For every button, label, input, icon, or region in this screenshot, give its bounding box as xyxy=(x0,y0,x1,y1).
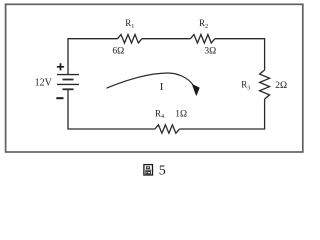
resistor R2 zigzag xyxy=(190,35,214,44)
battery - terminal mark xyxy=(56,97,63,99)
svg-text:I: I xyxy=(160,81,164,93)
svg-text:6Ω: 6Ω xyxy=(112,47,124,57)
wire from R3 to bottom-right corner and to R4 xyxy=(179,99,264,129)
battery B1 plates xyxy=(57,75,79,90)
svg-text:12V: 12V xyxy=(35,78,53,89)
current arrow I (curved) xyxy=(107,73,193,88)
resistor R1 zigzag xyxy=(118,35,142,44)
wire from battery positive up to top-left corner and to R1 xyxy=(68,39,118,75)
svg-text:5: 5 xyxy=(159,164,166,179)
resistor R4 zigzag xyxy=(155,125,180,133)
wire from R2 to top-right corner down to R3 xyxy=(215,39,265,70)
wire from R4 to bottom-left corner up to battery negative xyxy=(68,89,155,129)
caption glyph 圖 (Figure) xyxy=(144,165,153,175)
resistor R3 vertical zigzag xyxy=(260,70,270,99)
battery + terminal mark xyxy=(57,63,64,70)
svg-text:2Ω: 2Ω xyxy=(275,81,287,91)
wire between R1 and R2 xyxy=(142,38,191,40)
svg-text:3Ω: 3Ω xyxy=(204,47,216,57)
svg-text:1Ω: 1Ω xyxy=(175,110,187,120)
